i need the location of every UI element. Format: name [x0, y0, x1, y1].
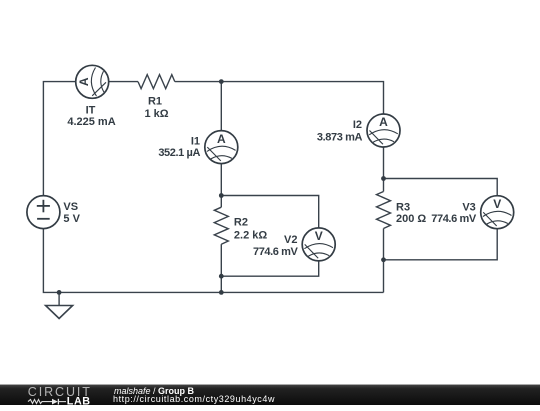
node I2/R3/V3 junction — [381, 176, 386, 181]
svg-text:5 V: 5 V — [63, 213, 80, 225]
wire IT to R1 — [109, 81, 138, 83]
footer bar — [0, 384, 540, 405]
ammeter I2 — [317, 114, 400, 147]
svg-text:A: A — [379, 115, 388, 129]
svg-text:http://circuitlab.com/cty329uh: http://circuitlab.com/cty329uh4yc4w — [113, 394, 275, 404]
svg-text:R1: R1 — [148, 96, 162, 108]
wire V2 top loop — [221, 196, 318, 228]
svg-text:774.6 mV: 774.6 mV — [431, 213, 477, 225]
svg-text:352.1 µA: 352.1 µA — [158, 147, 200, 159]
voltmeter V2 — [253, 228, 335, 261]
CircuitLab logo diode — [52, 399, 58, 405]
wire R1 to top-right corner and down to I2 — [175, 82, 384, 114]
resistor R2 — [214, 207, 267, 244]
svg-text:I2: I2 — [353, 119, 362, 131]
wire VS bottom to rail and bottom rail — [43, 229, 383, 293]
node I1/R2/V2 junction — [219, 193, 224, 198]
node top junction at R1/I1 — [219, 79, 224, 84]
resistor R3 — [377, 192, 427, 229]
svg-text:V: V — [493, 197, 501, 211]
wire V3 bottom loop — [384, 229, 498, 260]
voltmeter V3 — [431, 196, 513, 229]
svg-text:VS: VS — [63, 201, 78, 213]
wire node to R2 top — [220, 196, 222, 208]
wire R3 top — [383, 179, 385, 192]
svg-text:I1: I1 — [191, 136, 200, 148]
svg-text:V2: V2 — [284, 234, 297, 246]
svg-text:R2: R2 — [234, 216, 248, 228]
svg-text:V3: V3 — [462, 202, 475, 214]
wire I2 bottom to node — [383, 147, 385, 179]
svg-text:1 kΩ: 1 kΩ — [144, 108, 168, 120]
node R2 rail junction — [219, 290, 224, 295]
node ground junction — [57, 290, 62, 295]
svg-text:3.873 mA: 3.873 mA — [317, 132, 363, 144]
resistor R1 — [138, 75, 175, 120]
node junction dots — [57, 79, 386, 295]
node R3/V3 bottom junction — [381, 257, 386, 262]
wire top-left rail — [43, 82, 75, 196]
svg-text:4.225 mA: 4.225 mA — [67, 116, 115, 128]
svg-text:200 Ω: 200 Ω — [396, 213, 426, 225]
svg-text:A: A — [77, 77, 91, 86]
wire R2 bottom to ground rail — [220, 244, 222, 292]
wire V3 top loop — [384, 179, 498, 196]
ground — [46, 292, 73, 318]
svg-text:774.6 mV: 774.6 mV — [253, 246, 299, 258]
node R2/V2 bottom junction — [219, 274, 224, 279]
CircuitLab logo resistor zigzag — [28, 400, 52, 404]
ammeter I1 — [158, 131, 237, 164]
svg-text:R3: R3 — [396, 202, 410, 214]
ammeter IT — [67, 65, 115, 128]
svg-text:V: V — [315, 229, 323, 243]
voltage source VS — [27, 196, 81, 229]
wire node to I1 top — [220, 82, 222, 131]
svg-text:LAB: LAB — [67, 395, 91, 406]
svg-text:IT: IT — [86, 104, 96, 116]
svg-text:2.2 kΩ: 2.2 kΩ — [234, 230, 267, 242]
wire I1 bottom to node — [220, 164, 222, 196]
svg-text:A: A — [217, 132, 226, 146]
wire R3 bottom to rail — [383, 229, 385, 293]
wire V2 bottom loop — [221, 261, 318, 276]
